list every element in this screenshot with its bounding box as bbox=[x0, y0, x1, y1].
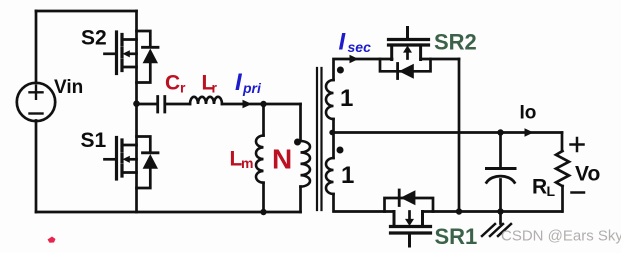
svg-text:R: R bbox=[532, 176, 547, 199]
svg-text:Io: Io bbox=[520, 103, 537, 124]
svg-text:CSDN @Ears Sky: CSDN @Ears Sky bbox=[501, 228, 621, 245]
svg-text:1: 1 bbox=[340, 85, 353, 112]
svg-text:L: L bbox=[547, 183, 556, 199]
svg-text:N: N bbox=[272, 144, 292, 175]
svg-text:r: r bbox=[212, 80, 218, 96]
svg-text:S1: S1 bbox=[81, 129, 107, 152]
svg-text:sec: sec bbox=[348, 39, 372, 55]
svg-text:SR1: SR1 bbox=[435, 224, 478, 249]
svg-text:Vin: Vin bbox=[54, 77, 83, 98]
svg-text:SR2: SR2 bbox=[434, 30, 477, 55]
svg-text:S2: S2 bbox=[81, 27, 107, 50]
svg-text:C: C bbox=[165, 72, 180, 95]
svg-text:Vo: Vo bbox=[575, 163, 600, 186]
svg-text:pri: pri bbox=[242, 80, 262, 96]
svg-text:1: 1 bbox=[341, 162, 354, 189]
svg-text:r: r bbox=[180, 80, 186, 96]
svg-text:m: m bbox=[241, 155, 253, 171]
